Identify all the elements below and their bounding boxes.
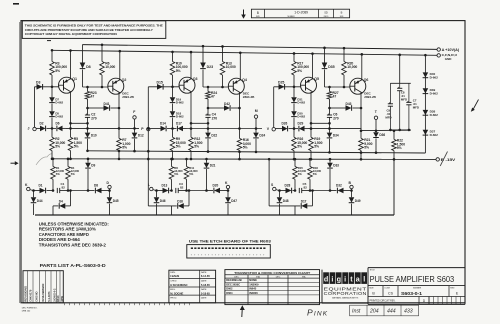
svg-text:D36: D36 [379, 133, 385, 137]
svg-text:444: 444 [387, 309, 396, 315]
wire Q5 collector [311, 52, 314, 79]
svg-text:ENG.: ENG. [170, 289, 176, 291]
digital logo [323, 272, 367, 284]
svg-text:J: J [28, 127, 30, 131]
wire Q6 emitter column [360, 92, 363, 132]
svg-text:DEC FORM NO.: DEC FORM NO. [22, 308, 38, 310]
diode D19 [170, 87, 184, 105]
svg-text:5%: 5% [56, 172, 61, 176]
svg-text:5%: 5% [243, 146, 248, 150]
label DEC 2894-2B [243, 92, 255, 100]
svg-text:D47: D47 [231, 199, 237, 203]
handwritten PINK [307, 308, 328, 318]
svg-text:i: i [344, 275, 346, 284]
microfilm arrow [241, 10, 246, 19]
svg-text:S603-0-1: S603-0-1 [401, 291, 423, 296]
resistor R21 [359, 131, 373, 161]
diode D6 [47, 122, 67, 132]
svg-text:D23: D23 [207, 65, 213, 69]
svg-text:D4: D4 [59, 200, 63, 204]
resistor R27 [327, 86, 339, 99]
svg-text:5%: 5% [174, 172, 179, 176]
svg-text:IN3606: IN3606 [249, 291, 258, 295]
transistor Q3 [179, 77, 198, 93]
wire input line [187, 128, 263, 130]
wire chain to input line [293, 118, 296, 130]
diode D39 [423, 88, 439, 95]
diode D17 [269, 189, 314, 215]
svg-text:D14: D14 [160, 122, 166, 126]
pencil mark diagonal [440, 152, 447, 167]
parts list note [40, 263, 106, 268]
wire T to segment [375, 120, 378, 133]
svg-text:5%: 5% [194, 145, 199, 149]
svg-text:5%: 5% [298, 172, 303, 176]
revisions table [23, 271, 64, 303]
wire R3 top [51, 49, 54, 62]
svg-text:D-662: D-662 [297, 101, 305, 105]
svg-text:5%: 5% [397, 146, 402, 150]
wire node line [325, 86, 351, 89]
svg-text:4659: 4659 [60, 295, 64, 301]
svg-text:DATE: DATE [201, 288, 207, 291]
wire node line [83, 86, 109, 89]
svg-text:DEC2894-2B: DEC2894-2B [226, 278, 242, 282]
sheet border frame [20, 21, 465, 303]
registration dash top-left [13, 3, 19, 5]
wire gate feed 3 [268, 158, 271, 206]
etch board note [189, 239, 272, 244]
diode D18 [170, 104, 184, 119]
svg-text:DATE: DATE [201, 280, 207, 283]
svg-text:5%: 5% [297, 69, 302, 73]
svg-text:REV.: REV. [450, 287, 455, 289]
svg-text:D13: D13 [162, 184, 168, 188]
svg-text:DEC: DEC [276, 277, 281, 279]
resistor R5 [68, 127, 82, 160]
svg-text:GND: GND [445, 57, 452, 61]
terminal S [271, 183, 279, 191]
svg-text:433: 433 [404, 309, 413, 315]
svg-text:82: 82 [62, 186, 66, 190]
printed circuit rev row [368, 297, 465, 305]
diode D25 [278, 80, 285, 89]
diode D26 [276, 122, 288, 132]
wire Q3 collector drop [190, 92, 210, 129]
ground return wire [35, 214, 394, 216]
diode D44 [31, 189, 43, 215]
svg-text:DATE: DATE [201, 296, 207, 299]
svg-text:D45: D45 [113, 199, 119, 203]
diode D30 [291, 104, 305, 119]
terminal K [25, 183, 33, 191]
svg-text:B: B [257, 11, 259, 15]
wire Q4 emitter column [238, 92, 241, 130]
svg-text:2894-2B: 2894-2B [243, 95, 255, 99]
signature table [169, 270, 216, 303]
svg-text:D8: D8 [94, 184, 98, 188]
diode D47 [225, 191, 237, 216]
svg-text:Q5: Q5 [314, 77, 319, 81]
diode D8 [88, 184, 110, 194]
resistor R12 [189, 127, 203, 160]
diode D12 [132, 128, 144, 152]
transistor Q2 [108, 78, 127, 94]
transistor Q4 [228, 78, 247, 94]
svg-text:PULSE AMPLIFIER S603: PULSE AMPLIFIER S603 [370, 274, 455, 284]
diode D36 [373, 131, 385, 154]
resistor R11 [184, 158, 198, 192]
svg-text:47: 47 [91, 94, 95, 98]
svg-text:i: i [331, 275, 333, 284]
wire R3 bottom [51, 75, 53, 87]
wire input riser [273, 87, 275, 128]
wire input line [66, 127, 139, 129]
resistor R15 [293, 158, 307, 192]
svg-text:EIA: EIA [256, 276, 260, 279]
conversion chart [225, 270, 320, 305]
resistor R17 [292, 62, 310, 76]
svg-text:NUMBER: NUMBER [413, 287, 422, 289]
svg-text:D1: D1 [39, 184, 43, 188]
svg-text:2894-2B: 2894-2B [122, 95, 134, 99]
terminal M [254, 109, 257, 118]
diode D31 [291, 87, 305, 105]
svg-text:D20: D20 [213, 184, 219, 188]
wire R17 top [293, 52, 296, 61]
svg-text:270: 270 [91, 116, 97, 120]
microfilm title strip [251, 9, 349, 18]
svg-text:D-662: D-662 [55, 101, 63, 105]
diode D3 [36, 80, 43, 89]
svg-text:TRANSISTOR & DIODE CONVERSI: TRANSISTOR & DIODE CONVERSION CHART [234, 271, 310, 275]
wire node line [203, 86, 229, 89]
svg-text:5%: 5% [71, 172, 76, 176]
svg-text:1-D-2089: 1-D-2089 [294, 11, 308, 15]
resistor R1 [51, 158, 65, 192]
terminal F [133, 110, 137, 119]
svg-text:D44: D44 [37, 199, 43, 203]
svg-text:R613: R613 [56, 295, 60, 302]
label DEC 2894-2B [122, 92, 134, 100]
resistor R7 [117, 128, 131, 160]
svg-text:5%: 5% [74, 145, 79, 149]
wire Q6 collector [361, 53, 364, 80]
svg-text:I BAHN: I BAHN [170, 274, 179, 278]
diode D9 [68, 158, 95, 192]
svg-text:D49: D49 [355, 199, 361, 203]
diode D22 [205, 129, 217, 153]
GND bus wire [52, 50, 437, 55]
wire F to line [133, 119, 136, 130]
diode D14 [150, 122, 166, 132]
svg-text:D662: D662 [226, 287, 233, 291]
svg-text:82: 82 [180, 186, 184, 190]
terminal K [225, 181, 230, 192]
svg-text:5%: 5% [297, 145, 302, 149]
wire input riser [34, 87, 36, 128]
svg-text:CHG NO: CHG NO [35, 291, 39, 301]
wire base line [274, 86, 302, 89]
wire C-block bottom rail [389, 129, 411, 132]
wire base line [35, 86, 60, 89]
diode D38 [423, 110, 439, 117]
svg-text:D21: D21 [210, 164, 216, 168]
wire R20 top [343, 47, 346, 62]
capacitor C6 [327, 99, 339, 130]
-15V rail lower [52, 158, 437, 161]
svg-text:Q4: Q4 [242, 78, 247, 82]
svg-text:D43: D43 [346, 102, 352, 106]
svg-text:D664: D664 [226, 291, 233, 295]
dec form note [22, 308, 38, 313]
wire output segment [362, 129, 411, 131]
svg-text:D34: D34 [333, 134, 339, 138]
capacitor C2 [85, 99, 97, 130]
resistor R23 [85, 86, 97, 99]
svg-text:g: g [337, 275, 341, 284]
svg-text:REVISIONS: REVISIONS [23, 286, 27, 302]
svg-text:5%: 5% [364, 146, 369, 150]
svg-text:DRN.: DRN. [170, 272, 176, 274]
terminal J [28, 127, 37, 131]
diode D49 [349, 191, 361, 216]
diode D48 [277, 189, 289, 215]
resistor R16 [292, 129, 308, 161]
capacitor C3 [176, 182, 187, 193]
svg-text:A +10V(A): A +10V(A) [442, 48, 460, 52]
svg-text:CODE: CODE [384, 287, 390, 289]
handwritten inspection cells [350, 305, 419, 316]
terminal L [148, 183, 156, 191]
svg-text:D33: D33 [333, 164, 339, 168]
wire R13 top [221, 45, 224, 61]
wire Q2 emitter column [118, 92, 121, 130]
diode D35 [322, 47, 335, 87]
svg-text:5%: 5% [176, 69, 181, 73]
svg-text:CS: CS [388, 291, 394, 295]
svg-text:USE THE ETCH BOARD OF THE R603: USE THE ETCH BOARD OF THE R603 [189, 239, 272, 244]
diode D34 [327, 129, 339, 154]
wire Q1 collector [69, 49, 72, 79]
svg-text:Q2: Q2 [122, 78, 127, 82]
svg-text:D17: D17 [176, 122, 182, 126]
diode D45 [107, 191, 119, 216]
svg-text:D8: D8 [86, 65, 91, 69]
+10V bus wire [83, 45, 438, 50]
terminal T [374, 110, 378, 120]
svg-text:D-662: D-662 [176, 101, 184, 105]
svg-text:5%: 5% [189, 172, 194, 176]
svg-text:M. SOGNE: M. SOGNE [170, 291, 183, 295]
transistor Q1 [58, 77, 77, 93]
svg-text:10,000: 10,000 [226, 65, 236, 69]
svg-text:47: 47 [211, 94, 215, 98]
svg-text:D35: D35 [328, 65, 334, 69]
wire chain to input line [51, 118, 54, 130]
svg-text:10,000: 10,000 [105, 65, 115, 69]
svg-text:270: 270 [212, 116, 218, 120]
wire base line [148, 86, 179, 89]
left margin arrow [11, 161, 19, 165]
wire chain to input line [171, 118, 174, 130]
resistor R13 [220, 62, 236, 88]
terminal B [349, 181, 354, 192]
resistor R20 [342, 62, 358, 88]
svg-text:SIZE: SIZE [369, 287, 374, 289]
svg-text:82: 82 [304, 186, 308, 190]
svg-text:CHK'D: CHK'D [170, 281, 177, 283]
svg-text:D-662: D-662 [430, 91, 439, 95]
svg-text:2-DWG-0-2: 2-DWG-0-2 [52, 288, 56, 302]
pencil arrow right margin [471, 100, 479, 112]
wire R10 top [171, 51, 174, 62]
terminal P [141, 127, 150, 131]
svg-text:D25: D25 [278, 80, 284, 84]
wire Q2 collector [119, 50, 122, 80]
svg-text:5%: 5% [55, 69, 60, 73]
svg-text:Q6: Q6 [364, 78, 369, 82]
diode D5 [49, 104, 63, 119]
svg-text:H SILVERMAN: H SILVERMAN [170, 283, 187, 287]
svg-text:CHK 6175: CHK 6175 [29, 289, 33, 302]
svg-text:Q3: Q3 [193, 77, 198, 81]
svg-text:NONE: NONE [249, 278, 257, 282]
diode D15 [157, 80, 164, 89]
resistor R10 [170, 62, 188, 76]
wire Q4 collector [239, 51, 242, 80]
title block size row [368, 286, 465, 297]
diode D1 [33, 184, 53, 194]
svg-text:TRANSISTORS ARE DEC 3639-2: TRANSISTORS ARE DEC 3639-2 [39, 242, 107, 247]
svg-text:D10: D10 [91, 134, 97, 138]
svg-text:D6: D6 [56, 122, 60, 126]
svg-text:5%: 5% [176, 145, 181, 149]
svg-text:D46: D46 [160, 199, 166, 203]
general notes [39, 222, 109, 248]
capacitor C8 [397, 83, 407, 130]
wire R10 bottom [172, 75, 174, 87]
diode D7 [49, 87, 63, 105]
wire Q5 collector drop [310, 92, 331, 129]
diode D13 [156, 184, 172, 194]
terminal B -15V [436, 158, 456, 162]
svg-text:D22: D22 [211, 134, 217, 138]
diode D10 [85, 128, 97, 152]
svg-text:5-18-65: 5-18-65 [201, 291, 210, 295]
svg-text:5%: 5% [55, 145, 60, 149]
diode D32 [330, 184, 352, 194]
diode D21 [187, 158, 216, 192]
svg-text:5-18-65: 5-18-65 [201, 283, 210, 287]
svg-text:1N3009: 1N3009 [249, 282, 259, 286]
capacitor C1 [57, 182, 68, 193]
svg-text:D15: D15 [157, 80, 163, 84]
svg-text:NUMBER: NUMBER [287, 16, 295, 18]
resistor R18 [308, 158, 322, 192]
diode D29 [289, 122, 309, 132]
terminal V [267, 127, 276, 131]
svg-text:D29: D29 [298, 122, 304, 126]
wire C-block riser [398, 54, 401, 84]
svg-text:D2: D2 [40, 122, 44, 126]
diode D16 [148, 189, 190, 215]
capacitor C5 [299, 182, 310, 193]
svg-text:5%: 5% [313, 172, 318, 176]
svg-text:D48: D48 [283, 199, 289, 203]
svg-text:D-662: D-662 [55, 115, 63, 119]
svg-text:SD: SD [324, 11, 328, 15]
resistor R22 [392, 130, 405, 161]
wire ground riser [393, 159, 395, 215]
diode D24 [253, 129, 265, 154]
title text [370, 270, 455, 285]
small dash under note box [47, 40, 51, 42]
svg-text:CORPORATION: CORPORATION [324, 291, 367, 296]
svg-text:204: 204 [369, 309, 379, 315]
svg-text:D-662: D-662 [430, 76, 439, 80]
capacitor C4 [205, 99, 217, 130]
capacitor C7 [406, 83, 419, 130]
svg-text:10,000: 10,000 [347, 65, 357, 69]
wire R6 top [101, 43, 104, 61]
diode D46 [154, 189, 166, 215]
svg-text:PARTS LIST A-PL-S603-0-D: PARTS LIST A-PL-S603-0-D [40, 263, 106, 268]
logo equipment corporation text [324, 287, 367, 300]
svg-text:DATE: DATE [201, 271, 207, 274]
terminal A +10V(A) [437, 48, 459, 52]
svg-text:PROD.: PROD. [170, 297, 177, 299]
svg-text:D17: D17 [301, 200, 307, 204]
svg-text:MFD: MFD [401, 98, 407, 102]
diode D37 [423, 130, 439, 137]
wire Q1 collector drop [69, 92, 89, 129]
-15V rail upper [88, 151, 426, 153]
resistor R2 [50, 128, 66, 160]
etch board connector [187, 245, 270, 258]
svg-text:D41: D41 [104, 102, 110, 106]
svg-text:D-662: D-662 [297, 115, 305, 119]
svg-text:D12: D12 [138, 133, 144, 137]
wire Q3 collector [190, 51, 193, 79]
wire clamp diode chain [424, 54, 427, 153]
svg-text:270: 270 [333, 116, 339, 120]
svg-text:MAYNARD, MASSACHUSETTS: MAYNARD, MASSACHUSETTS [332, 296, 359, 299]
svg-text:D-662: D-662 [176, 115, 184, 119]
title block frame [322, 268, 465, 305]
svg-text:IN645: IN645 [249, 287, 256, 291]
diode D40 [423, 72, 439, 79]
diode D4 [53, 189, 72, 215]
svg-text:MFD: MFD [413, 106, 419, 110]
diode D23 [200, 45, 213, 87]
svg-text:6-14-65: 6-14-65 [201, 274, 210, 278]
diode D33 [310, 158, 339, 192]
pencil squiggle left [36, 154, 52, 165]
svg-text:Q1: Q1 [72, 77, 77, 81]
svg-text:L: L [148, 183, 150, 187]
resistor R16 [237, 129, 251, 161]
svg-text:D42: D42 [224, 102, 230, 106]
svg-text:D-662: D-662 [430, 113, 439, 117]
svg-text:D26: D26 [282, 122, 288, 126]
diode D20 [207, 184, 229, 194]
resistor R8 [169, 158, 183, 192]
svg-text:d: d [324, 275, 328, 284]
svg-text:Inst: Inst [352, 309, 361, 315]
resistor R9 [170, 129, 186, 161]
svg-text:EIA: EIA [302, 276, 306, 279]
